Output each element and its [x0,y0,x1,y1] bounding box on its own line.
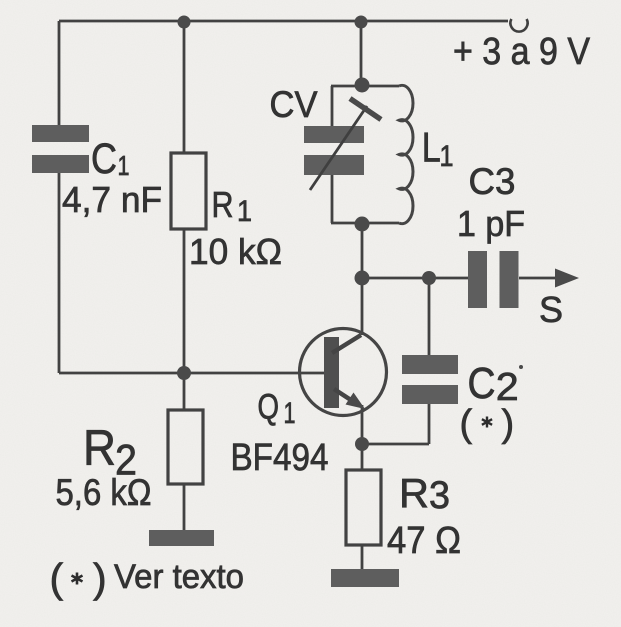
note ( * ) beside C2 [460,403,515,445]
wire from C1 bottom to base line [58,172,61,373]
ground R3 [331,569,399,587]
wire CV bottom to tank bottom [331,175,334,223]
wire tank bottom horizontal [331,222,399,225]
resistor R2 [168,410,203,484]
svg-text:R: R [212,184,234,225]
terminal +V open circle [510,19,527,32]
svg-text:5,6 kΩ: 5,6 kΩ [56,472,152,513]
svg-text:BF494: BF494 [231,437,329,479]
svg-text:): ) [93,555,107,601]
wire C2 node down to C2 top [428,278,431,355]
node junction on rail at R1 [178,16,191,29]
node C2 top junction [422,271,436,285]
svg-text:1: 1 [440,140,454,173]
wire emitter node to C2 branch [362,443,429,446]
svg-text:(: ( [50,555,64,601]
resistor R1 [171,153,206,229]
svg-text:1: 1 [118,150,130,181]
capacitor C1 [32,125,89,173]
node junction on rail at tank [355,16,368,29]
output arrow S [555,269,579,288]
wire base node to R2 top [183,373,186,410]
wire tank top to CV [331,86,334,126]
wire C3 to output arrow [519,277,556,280]
svg-text:): ) [502,403,515,445]
svg-text:47 Ω: 47 Ω [387,520,461,562]
wire R1 bottom to base node [183,229,186,373]
svg-text:1: 1 [237,195,252,228]
svg-text:S: S [539,289,563,330]
svg-text:C: C [468,359,496,408]
svg-text:1 pF: 1 pF [457,203,525,244]
capacitor C2 [402,355,458,404]
wire rail to tank top node [360,21,363,86]
svg-text:1: 1 [284,397,296,430]
wire emitter to emitter node [361,405,364,444]
node output junction [355,271,370,286]
trimmer capacitor CV [304,99,381,191]
wire C2 bottom to emitter wire [428,401,431,444]
speck after C2 [519,365,523,369]
wire output node to C3 [362,277,468,280]
svg-text:Q: Q [258,388,280,427]
svg-text:3: 3 [429,474,450,517]
svg-text:C3: C3 [469,161,516,202]
svg-text:CV: CV [270,84,318,125]
wire left vertical from rail to C1 [58,21,61,125]
node base junction [177,366,191,380]
note ( * ) Ver texto [50,555,245,601]
wire emitter node to R3 top [361,444,364,470]
svg-text:R: R [399,470,429,516]
svg-text:10 kΩ: 10 kΩ [189,231,282,272]
wire tank top horizontal [331,85,399,88]
transistor Q1 [300,329,387,416]
svg-text:4,7 nF: 4,7 nF [62,179,162,220]
ground R2 [149,530,214,546]
wire base line to Q1 [59,372,330,375]
svg-text:R: R [83,420,116,476]
node tank bottom junction [355,217,370,232]
wire R3 bottom to ground [361,545,364,570]
svg-text:+ 3 a 9 V: + 3 a 9 V [453,31,591,73]
resistor R3 [346,470,381,545]
svg-text:(: ( [460,403,473,445]
wire rail to R1 top [183,21,186,153]
svg-text:C: C [91,135,117,183]
wire R2 bottom to ground [183,484,186,531]
svg-text:Ver texto: Ver texto [114,558,244,596]
wire tank bottom node to output node and collector [361,223,364,335]
capacitor C3 [468,251,519,308]
wire top supply rail [59,20,508,23]
inductor L1 [399,85,413,223]
svg-text:L: L [422,124,441,171]
node tank top junction [355,78,370,93]
node emitter junction [355,437,369,451]
